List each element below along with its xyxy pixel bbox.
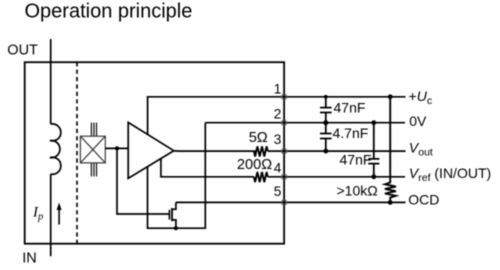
svg-text:47nF: 47nF	[340, 152, 372, 168]
hall element	[80, 136, 105, 163]
svg-text:200Ω: 200Ω	[237, 157, 272, 173]
current arrow Ip	[58, 206, 60, 225]
resistor 5 ohm	[254, 146, 268, 156]
magnetic core marks top	[91, 123, 96, 137]
primary conductor wire bottom	[50, 174, 52, 256]
node source to 0V	[174, 226, 178, 230]
svg-text:1: 1	[274, 81, 282, 96]
wire hall to amp	[105, 147, 128, 149]
wire gate drop	[117, 148, 169, 214]
wire pin5 OCD drain	[176, 201, 406, 203]
pin 3 terminal circle	[281, 148, 286, 153]
capacitor C3 47nF	[368, 123, 379, 177]
pin 1 terminal circle	[281, 94, 286, 99]
pin 2 terminal circle	[281, 120, 286, 125]
transistor Q1 OCD mosfet	[168, 210, 170, 220]
svg-text:Operation principle: Operation principle	[25, 1, 193, 23]
transducer case box	[25, 62, 284, 244]
node C3 top on 0V line	[371, 120, 376, 125]
wire 0V return: amp bottom to rail	[148, 123, 206, 229]
pin 5 terminal circle	[281, 200, 286, 205]
primary coil Lp	[50, 124, 61, 174]
svg-text:+Uc: +Uc	[409, 88, 433, 107]
svg-text:OCD: OCD	[408, 191, 439, 207]
svg-text:3: 3	[274, 132, 282, 147]
svg-text:>10kΩ: >10kΩ	[337, 183, 378, 199]
svg-text:OUT: OUT	[7, 42, 38, 58]
node hall/amp/gate junction	[115, 146, 119, 150]
wire pin2 0V	[205, 122, 405, 124]
dashed separation line	[76, 62, 78, 244]
svg-text:Vref (IN/OUT): Vref (IN/OUT)	[409, 165, 491, 184]
resistor 200 ohm	[254, 172, 268, 182]
svg-text:0V: 0V	[409, 113, 427, 129]
resistor R1 pull-up >10k ohm	[385, 97, 396, 203]
wire pin3 Vout right	[268, 150, 406, 152]
svg-text:2: 2	[274, 107, 282, 122]
svg-text:5Ω: 5Ω	[249, 130, 268, 146]
node C2 bottom on Vout line	[323, 149, 328, 154]
wire pin4 Vref tap from amp lower edge	[161, 159, 254, 177]
svg-text:Vout: Vout	[409, 140, 433, 159]
wire pin1 supply to amp top	[148, 97, 406, 135]
capacitor C1 47nF	[320, 97, 332, 123]
svg-text:4.7nF: 4.7nF	[333, 125, 369, 141]
magnetic core marks bottom	[91, 163, 96, 177]
primary conductor wire top	[50, 39, 52, 124]
svg-text:5: 5	[274, 184, 282, 199]
wire pin4 Vref right	[268, 176, 405, 178]
op-amp A1	[128, 122, 174, 178]
capacitor C2 4.7nF	[320, 123, 332, 151]
svg-text:Ip: Ip	[32, 205, 43, 223]
node R1 top on +Uc line	[388, 94, 393, 99]
node C1 top on +Uc line	[324, 95, 328, 99]
svg-text:IN: IN	[22, 251, 37, 267]
svg-text:47nF: 47nF	[334, 100, 366, 116]
node R1 bottom on OCD line	[388, 200, 393, 205]
pin 4 terminal circle	[281, 174, 286, 179]
node C3 bottom on Vref line	[371, 174, 376, 179]
wire pin3 Vout from amp tip	[174, 150, 256, 152]
node C1/C2 on 0V line	[323, 120, 328, 125]
svg-text:4: 4	[274, 161, 282, 176]
